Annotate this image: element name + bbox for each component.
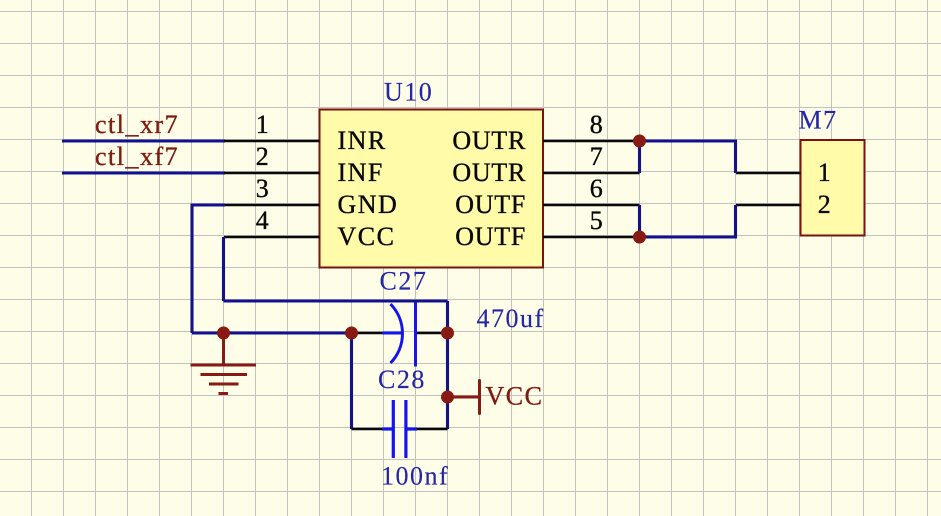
pin 1 INR bbox=[224, 110, 387, 155]
wire pin6-pin5 vertical bbox=[638, 205, 641, 237]
pin 5 OUTF bbox=[455, 206, 639, 251]
svg-text:OUTF: OUTF bbox=[455, 190, 526, 219]
svg-text:8: 8 bbox=[590, 110, 605, 139]
junction VCC bbox=[441, 391, 454, 404]
capacitor C28 bbox=[352, 400, 448, 458]
wire GND pin3 to ground rail bbox=[192, 205, 225, 333]
pin 3 GND bbox=[224, 174, 398, 219]
svg-text:7: 7 bbox=[590, 142, 605, 171]
value 100nf bbox=[381, 462, 449, 491]
svg-text:INR: INR bbox=[338, 126, 387, 155]
pin 2 of M7 bbox=[736, 190, 832, 219]
pin 1 of M7 bbox=[736, 158, 832, 187]
wire pin8-pin7 vertical bbox=[638, 141, 641, 173]
svg-text:GND: GND bbox=[338, 190, 399, 219]
svg-text:ctl_xr7: ctl_xr7 bbox=[95, 110, 179, 139]
value 470uf bbox=[477, 304, 545, 333]
designator C27 bbox=[380, 267, 428, 296]
junction C27 right bbox=[441, 327, 454, 340]
pin 8 OUTR bbox=[452, 110, 639, 155]
junction at pin8 bbox=[633, 135, 646, 148]
svg-text:3: 3 bbox=[256, 174, 271, 203]
pin 6 OUTF bbox=[455, 174, 639, 219]
capacitor C27 bbox=[352, 303, 448, 367]
svg-text:6: 6 bbox=[590, 174, 605, 203]
pin 2 INF bbox=[224, 142, 384, 187]
svg-text:M7: M7 bbox=[799, 106, 838, 135]
net label ctl_xf7 bbox=[95, 142, 179, 171]
svg-text:100nf: 100nf bbox=[381, 462, 449, 491]
svg-text:ctl_xf7: ctl_xf7 bbox=[95, 142, 179, 171]
pin 4 VCC bbox=[224, 206, 395, 251]
svg-text:C28: C28 bbox=[378, 365, 426, 394]
svg-text:INF: INF bbox=[338, 158, 384, 187]
svg-text:470uf: 470uf bbox=[477, 304, 545, 333]
wire C28 left branch bbox=[350, 333, 353, 429]
svg-text:5: 5 bbox=[590, 206, 605, 235]
svg-text:C27: C27 bbox=[380, 267, 428, 296]
ground symbol bbox=[191, 333, 257, 394]
wire ground rail bbox=[192, 331, 352, 334]
svg-text:OUTR: OUTR bbox=[452, 158, 526, 187]
designator U10 bbox=[384, 78, 433, 107]
svg-text:VCC: VCC bbox=[338, 222, 396, 251]
svg-text:4: 4 bbox=[256, 206, 271, 235]
net label ctl_xr7 bbox=[95, 110, 179, 139]
ic U10 body bbox=[320, 110, 544, 268]
junction ground rail bbox=[217, 327, 230, 340]
svg-text:OUTF: OUTF bbox=[455, 222, 526, 251]
wire ctl_xr7 bbox=[62, 139, 225, 142]
designator C28 bbox=[378, 365, 426, 394]
power port VCC bbox=[448, 381, 544, 414]
svg-text:2: 2 bbox=[818, 190, 833, 219]
svg-text:VCC: VCC bbox=[486, 382, 544, 411]
wire VCC top rail bbox=[224, 299, 448, 302]
junction C27 left bbox=[345, 327, 358, 340]
junction at pin5 bbox=[633, 231, 646, 244]
wire VCC right rail bbox=[446, 301, 449, 429]
svg-text:2: 2 bbox=[256, 142, 271, 171]
svg-text:U10: U10 bbox=[384, 78, 433, 107]
svg-text:1: 1 bbox=[256, 110, 271, 139]
wire pin5 to M7 pin2 bbox=[640, 205, 736, 237]
pin 7 OUTR bbox=[452, 142, 639, 187]
designator M7 bbox=[799, 106, 838, 135]
wire VCC pin4 down bbox=[222, 237, 225, 301]
wire ctl_xf7 bbox=[62, 171, 225, 174]
connector M7 body bbox=[801, 140, 865, 236]
svg-text:1: 1 bbox=[818, 158, 833, 187]
svg-text:OUTR: OUTR bbox=[452, 126, 526, 155]
wire pin8 to M7 pin1 bbox=[640, 141, 736, 173]
